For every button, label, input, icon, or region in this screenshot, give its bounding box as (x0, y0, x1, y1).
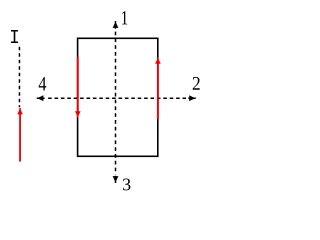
axis arrow 1 (vertical dashed, up) (113, 21, 119, 175)
label 1 (122, 11, 127, 24)
label 2 (193, 77, 200, 90)
axis arrow 4 (horizontal dashed, left) (37, 95, 45, 101)
label 3 (123, 179, 130, 191)
label I (11, 30, 18, 43)
loop (rectangular conducting frame) (78, 38, 158, 156)
current arrow I (red, upward, on wire) (17, 108, 23, 162)
induced current arrow, right side of loop (red, upward) (155, 57, 161, 119)
axis arrow 2 (horizontal dashed, right) (48, 95, 196, 101)
label 4 (39, 77, 47, 90)
axis arrow 3 (vertical dashed, down) (113, 176, 119, 183)
induced current arrow, left side of loop (red, downward) (75, 57, 81, 118)
wire I (straight conductor, dashed) (18, 47, 20, 108)
